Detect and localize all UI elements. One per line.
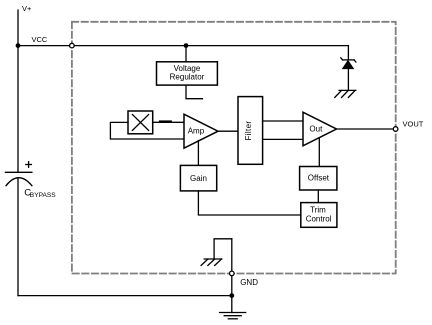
oscillator X box	[128, 111, 153, 134]
op-amp Amp	[184, 114, 218, 148]
svg-text:Amp: Amp	[188, 127, 205, 136]
svg-text:Offset: Offset	[308, 173, 330, 182]
voltage regulator block	[157, 62, 218, 85]
svg-text:BYPASS: BYPASS	[30, 192, 57, 199]
svg-text:Regulator: Regulator	[170, 73, 205, 82]
dashed IC boundary	[72, 22, 396, 274]
gain block	[180, 165, 216, 191]
wire amp to filter	[218, 130, 238, 132]
wire gain to trim control	[198, 191, 300, 215]
wire filter to out lower	[263, 138, 303, 140]
pin VCC boundary	[70, 43, 75, 48]
wire oscillator to amp upper input	[153, 121, 184, 123]
svg-text:VCC: VCC	[32, 35, 48, 44]
wire VCC rail	[18, 45, 348, 47]
label CBYPASS	[24, 187, 56, 199]
svg-text:VOUT: VOUT	[403, 119, 424, 128]
wire GND vertical	[231, 239, 233, 313]
offset block	[300, 167, 337, 191]
node bottom return junction	[229, 293, 234, 298]
trim control block	[301, 203, 337, 228]
svg-text:Trim: Trim	[310, 206, 326, 215]
chassis ground zener	[335, 90, 356, 97]
filter block	[238, 97, 263, 165]
wire supply to regulator	[185, 46, 187, 62]
wire regulator output stub	[186, 85, 202, 99]
earth ground	[220, 313, 246, 319]
svg-text:Gain: Gain	[190, 174, 207, 183]
wire amp to gain	[197, 141, 199, 166]
wire filter to out upper	[263, 120, 303, 122]
zener diode	[341, 46, 356, 91]
node regulator supply junction	[184, 43, 189, 48]
svg-text:V+: V+	[22, 4, 32, 13]
capacitor CBYPASS	[5, 162, 32, 186]
wire internal ground branch	[214, 239, 232, 259]
wire V+ rail lower	[17, 178, 19, 296]
buffer Out	[303, 112, 337, 146]
wire out to offset	[318, 138, 320, 167]
svg-text:GND: GND	[240, 278, 258, 287]
pin GND boundary	[230, 271, 235, 276]
wire bottom return	[18, 295, 232, 297]
wire out to VOUT pin	[337, 128, 396, 130]
wire V+ rail upper	[17, 10, 19, 172]
node VCC junction	[16, 43, 21, 48]
svg-text:Filter: Filter	[244, 121, 253, 141]
svg-text:Out: Out	[309, 125, 323, 134]
wire feedback loop to amp lower input	[110, 122, 184, 139]
svg-text:Control: Control	[306, 215, 332, 224]
pin VOUT	[393, 127, 398, 132]
chopper switch bar	[160, 120, 171, 122]
chassis ground internal	[201, 259, 222, 265]
wire offset to trim control	[317, 190, 319, 203]
